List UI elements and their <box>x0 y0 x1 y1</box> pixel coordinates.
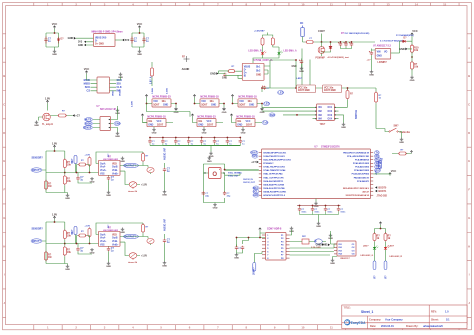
wire <box>93 119 114 121</box>
svg-text:11: 11 <box>330 2 333 6</box>
wire <box>151 62 153 86</box>
power flag VCC <box>145 95 148 98</box>
port +C? <box>73 114 81 117</box>
wire <box>333 257 338 259</box>
junction <box>236 237 238 239</box>
svg-text:3V3: 3V3 <box>78 42 83 44</box>
junction <box>54 32 56 34</box>
svg-text:VDDA: VDDA <box>119 89 122 96</box>
svg-text:1u: 1u <box>167 241 170 244</box>
svg-text:OU1: OU1 <box>328 107 333 109</box>
svg-text:RxD: RxD <box>270 114 275 117</box>
capacitor C2 <box>130 37 137 44</box>
svg-text:VCC: VCC <box>412 29 418 33</box>
wire <box>91 86 117 88</box>
ground <box>330 259 335 266</box>
svg-text:INPUT?: INPUT? <box>32 240 41 243</box>
resistor R <box>261 37 264 46</box>
resistor R <box>151 67 154 77</box>
wire <box>42 241 65 244</box>
wire <box>47 103 49 110</box>
wire <box>120 242 140 255</box>
junction <box>296 114 298 116</box>
ground <box>152 128 157 135</box>
IC NCP/LP2985-33 <box>197 115 216 126</box>
wire <box>42 170 65 173</box>
svg-text:GND: GND <box>163 105 168 107</box>
blue oval component <box>315 239 323 244</box>
junction <box>194 103 196 105</box>
ground <box>115 132 120 139</box>
capacitor C <box>174 139 177 143</box>
wire <box>331 231 338 248</box>
wire <box>46 240 68 265</box>
net label SHDN <box>84 122 92 126</box>
port +C? <box>251 161 259 164</box>
svg-text:100n: 100n <box>327 212 333 214</box>
svg-text:GND: GND <box>65 198 70 200</box>
svg-text:VDD: VDD <box>112 163 117 165</box>
capacitor C <box>324 207 327 211</box>
svg-text:VBUS 5V0: VBUS 5V0 <box>95 38 107 40</box>
svg-text:CON?: CON? <box>318 30 325 33</box>
IC U? <box>100 117 111 131</box>
svg-text:+1.8V: +1.8V <box>141 255 147 257</box>
svg-text:C: C <box>468 103 470 107</box>
svg-text:GND: GND <box>369 75 374 77</box>
IC NCP/LP2985-18 <box>236 115 255 126</box>
svg-text:14: 14 <box>415 2 419 6</box>
svg-text:1u: 1u <box>167 170 170 173</box>
svg-text:OU4: OU4 <box>328 118 333 121</box>
svg-text:MK?: MK? <box>72 229 74 234</box>
wire <box>372 49 376 71</box>
wire <box>96 152 143 164</box>
svg-text:Drawn By:: Drawn By: <box>406 325 419 328</box>
svg-text:NCP/LP2985-33: NCP/LP2985-33 <box>152 96 171 99</box>
junction <box>301 87 303 89</box>
svg-text:VCC: VCC <box>239 101 244 103</box>
port GND <box>322 244 330 247</box>
svg-text:LED: LED <box>265 103 270 106</box>
wire <box>46 148 65 192</box>
microphone sensor <box>74 227 77 235</box>
net flag AGND <box>182 56 190 71</box>
svg-text:10k: 10k <box>67 251 72 254</box>
junction <box>380 228 382 230</box>
capacitor ['C?', '1u'] <box>107 176 115 181</box>
IC U? <box>317 104 335 121</box>
LED <box>373 246 378 250</box>
wire <box>411 69 413 76</box>
ground <box>162 190 167 197</box>
svg-text:XTAL_IN/8MHz: XTAL_IN/8MHz <box>228 172 242 175</box>
svg-text:13: 13 <box>386 2 390 6</box>
svg-text:SENSOR?: SENSOR? <box>32 158 44 160</box>
svg-text:GND: GND <box>65 269 70 271</box>
svg-text:GND: GND <box>211 105 216 107</box>
svg-text:B: B <box>3 74 5 78</box>
svg-text:10n: 10n <box>198 121 203 123</box>
svg-text:STM32F103C8T6: STM32F103C8T6 <box>321 147 340 149</box>
wire <box>375 103 377 128</box>
junction <box>175 103 177 105</box>
power flag VCC <box>137 22 143 29</box>
output net label <box>124 234 139 238</box>
svg-text:VO: VO <box>384 52 388 54</box>
svg-text:+1.8V: +1.8V <box>85 155 91 157</box>
svg-text:CON? HDR-8: CON? HDR-8 <box>267 229 282 231</box>
svg-text:AGND: AGND <box>182 67 190 71</box>
wire <box>313 106 339 108</box>
wire <box>296 49 310 89</box>
resistor ['R?', '10k'] <box>411 61 419 70</box>
junction <box>224 169 226 171</box>
svg-text:1.8VA: 1.8VA <box>151 88 154 94</box>
svg-text:+C5/USB?: +C5/USB? <box>254 31 265 33</box>
svg-text:5IO2.PPD1V-5IOA2.5A.V2: 5IO2.PPD1V-5IOA2.5A.V2 <box>346 194 370 197</box>
svg-text:VinB-: VinB- <box>112 170 118 172</box>
svg-text:TPA?: TPA? <box>320 123 326 126</box>
wire <box>65 236 99 244</box>
LED <box>277 51 282 55</box>
svg-text:TxD: TxD <box>263 121 268 124</box>
wire <box>321 42 323 56</box>
capacitor C <box>161 139 164 143</box>
junction <box>411 56 413 58</box>
svg-text:OutB: OutB <box>112 166 118 169</box>
svg-text:trimm-2k: trimm-2k <box>128 190 138 193</box>
svg-text:10k: 10k <box>414 49 419 52</box>
svg-text:1OUT: 1OUT <box>201 105 208 107</box>
svg-text:E: E <box>3 159 5 163</box>
power flag VCC <box>52 22 58 29</box>
svg-text:GND: GND <box>299 71 304 73</box>
svg-text:VCC: VCC <box>157 121 162 123</box>
svg-text:PCA.MRGB7-B: PCA.MRGB7-B <box>355 159 370 162</box>
svg-text:10n: 10n <box>237 121 242 123</box>
net label LED <box>253 193 259 197</box>
wire <box>120 171 140 184</box>
svg-text:15OA.SLK MD7/PPC1: 15OA.SLK MD7/PPC1 <box>263 180 284 183</box>
svg-text:VDD: VDD <box>112 234 117 236</box>
junction <box>261 87 263 89</box>
wire <box>132 29 144 50</box>
resistor R <box>398 152 407 155</box>
svg-text:JTAG-DIS: JTAG-DIS <box>377 194 388 197</box>
junction <box>299 205 301 207</box>
net label SDA <box>253 186 259 190</box>
transistor Q2 <box>42 113 53 126</box>
ground <box>260 107 265 114</box>
ground <box>207 156 212 163</box>
resistor ['R?', '1k'] <box>384 232 391 241</box>
svg-text:A: A <box>3 46 5 50</box>
output net label <box>124 163 139 167</box>
svg-text:SENSOR?: SENSOR? <box>32 229 44 231</box>
junction <box>309 87 311 89</box>
svg-text:5V0: 5V0 <box>125 39 130 42</box>
svg-text:GND: GND <box>237 124 242 126</box>
svg-text:1/1: 1/1 <box>446 319 450 322</box>
wire <box>108 175 110 190</box>
svg-text:D+ GND: D+ GND <box>95 44 104 46</box>
svg-text:100n: 100n <box>301 212 307 214</box>
svg-text:XTAL_OUT PPC1Y-P6: XTAL_OUT PPC1Y-P6 <box>263 176 284 179</box>
svg-text:TL_amp H: TL_amp H <box>42 124 53 126</box>
svg-text:ADC2?: ADC2? <box>362 190 369 193</box>
svg-text:XTAL_OUT: XTAL_OUT <box>228 175 239 178</box>
svg-text:SDO: SDO <box>117 79 122 82</box>
net label SWC <box>375 165 382 169</box>
svg-text:INPUT?: INPUT? <box>32 169 41 172</box>
wire <box>210 146 212 152</box>
svg-text:10n: 10n <box>162 101 167 103</box>
power flag VCC <box>141 114 144 117</box>
cap bank2 rail <box>297 205 341 207</box>
resistor R <box>271 37 274 46</box>
wire <box>262 107 313 115</box>
resistor ['R?', '10k'] <box>63 158 71 168</box>
ground <box>299 67 304 74</box>
svg-text:A: A <box>468 46 470 50</box>
filter block 2 <box>323 85 342 93</box>
svg-text:PCM.ADL?: PCM.ADL? <box>263 162 274 165</box>
svg-text:VCC: VCC <box>207 121 212 123</box>
svg-text:GND: GND <box>198 124 203 126</box>
capacitor C <box>202 191 205 195</box>
ground <box>115 109 120 116</box>
svg-text:LED?: LED? <box>363 246 369 248</box>
IC U? <box>337 241 356 256</box>
wire <box>46 219 65 263</box>
capacitor C <box>200 139 203 143</box>
IC NCP/LP2985-18 <box>147 115 166 126</box>
junction <box>261 103 263 105</box>
svg-text:+1.8V: +1.8V <box>85 226 91 228</box>
svg-text:GND: GND <box>399 48 405 51</box>
wire <box>391 52 400 54</box>
svg-text:TITLE:: TITLE: <box>344 308 351 310</box>
wire <box>46 29 59 50</box>
svg-text:GND: GND <box>202 133 207 135</box>
net label SWD <box>375 161 382 165</box>
resistor blue G <box>373 261 376 270</box>
svg-text:SW?: SW? <box>394 125 400 127</box>
resistor R <box>88 227 91 237</box>
wire <box>143 117 174 123</box>
ground <box>65 194 70 201</box>
svg-text:GND: GND <box>316 244 322 247</box>
capacitor C4 <box>222 73 227 80</box>
svg-text:PCA.ADC/5IO2: PCA.ADC/5IO2 <box>355 166 370 169</box>
svg-text:2013-04-01: 2013-04-01 <box>381 325 394 328</box>
junction <box>248 237 250 239</box>
wire <box>253 55 279 64</box>
svg-text:NCP/LP2985-18: NCP/LP2985-18 <box>236 115 255 118</box>
svg-text:100n: 100n <box>314 212 320 214</box>
wire <box>232 117 263 123</box>
capacitor C <box>223 191 226 195</box>
svg-text:GND: GND <box>399 142 404 144</box>
capacitor C <box>343 42 347 46</box>
svg-text:OutA: OutA <box>100 233 106 236</box>
wire <box>114 128 118 132</box>
wire <box>339 115 344 123</box>
ground <box>65 265 70 272</box>
svg-text:GND: GND <box>115 136 120 138</box>
resistor R <box>78 163 87 166</box>
IC U? <box>242 63 264 80</box>
svg-text:MOSI: MOSI <box>84 79 91 82</box>
wire <box>264 66 270 74</box>
junction <box>351 41 353 43</box>
svg-text:MUTE: MUTE <box>84 118 91 121</box>
wire <box>225 75 242 78</box>
junction <box>259 237 261 239</box>
net label MUTE <box>84 118 92 122</box>
wire <box>376 129 402 138</box>
svg-text:VinB-: VinB- <box>112 241 118 243</box>
IC U? <box>94 34 116 47</box>
junction <box>76 172 78 174</box>
svg-text:OutA: OutA <box>100 162 106 165</box>
ground <box>137 50 142 57</box>
net label RxD <box>269 113 275 117</box>
resistor ['R?', '1M'] <box>45 251 52 261</box>
wire <box>373 174 390 176</box>
svg-text:LED?: LED? <box>297 78 303 80</box>
svg-text:VCC: VCC <box>201 101 206 103</box>
svg-text:1u: 1u <box>80 250 83 253</box>
svg-text:GND: GND <box>256 75 261 77</box>
svg-text:HOSC6.PLJ5Y/PPC11-2: HOSC6.PLJ5Y/PPC11-2 <box>263 195 286 197</box>
svg-text:NCP/LP2985-33: NCP/LP2985-33 <box>197 115 216 118</box>
svg-text:GND: GND <box>52 54 57 56</box>
svg-text:OUTPUT?: OUTPUT? <box>125 235 137 238</box>
capacitor C1 <box>44 37 51 44</box>
svg-text:5V1 1N4747A(DO/5V6 WE): 5V1 1N4747A(DO/5V6 WE) <box>345 32 370 35</box>
port 5V0 <box>122 39 130 42</box>
wire <box>313 118 339 120</box>
svg-text:LED-0603_R: LED-0603_R <box>390 256 403 258</box>
svg-text:VCC: VCC <box>246 121 251 123</box>
trimmer <box>147 238 154 243</box>
wire <box>375 225 386 234</box>
IC U? <box>97 77 110 93</box>
svg-text:F: F <box>3 188 5 192</box>
svg-text:15: 15 <box>443 2 447 6</box>
svg-text:ID: ID <box>244 76 247 78</box>
svg-text:U?: U? <box>314 146 318 149</box>
svg-text:1OUT: 1OUT <box>207 124 214 126</box>
capacitor C <box>239 139 242 143</box>
svg-text:AUDIO_IN?: AUDIO_IN? <box>164 147 167 160</box>
svg-text:1.8V: 1.8V <box>52 213 58 217</box>
svg-text:VCC: VCC <box>52 22 58 26</box>
svg-text:PCA2.ADC/4.PSD2: PCA2.ADC/4.PSD2 <box>352 173 370 176</box>
wire <box>76 37 94 39</box>
svg-text:+1.8V: +1.8V <box>141 184 147 186</box>
wire <box>408 49 413 62</box>
svg-text:PCA2.ADC/5IO2: PCA2.ADC/5IO2 <box>354 169 370 172</box>
svg-text:BOOT1: BOOT1 <box>379 191 387 193</box>
svg-text:1OUT: 1OUT <box>157 124 164 126</box>
svg-text:17SAL.TSL/PPC1/1.8V1: 17SAL.TSL/PPC1/1.8V1 <box>263 166 286 169</box>
wire <box>290 230 292 235</box>
svg-text:G: G <box>3 216 5 220</box>
wire <box>315 199 317 202</box>
svg-text:GND: GND <box>115 122 121 125</box>
resistor R <box>346 89 349 99</box>
IC NCP/LP2985-18 <box>200 96 219 107</box>
port GND <box>316 243 324 246</box>
power flag VCC <box>410 151 413 154</box>
svg-text:1u: 1u <box>80 179 83 182</box>
svg-text:Company:: Company: <box>369 319 381 322</box>
svg-text:D-: D- <box>95 41 98 43</box>
wire <box>120 233 148 236</box>
ground <box>120 228 125 235</box>
svg-text:XTAL_IN PPC0Y-PA5: XTAL_IN PPC0Y-PA5 <box>263 173 283 176</box>
capacitor C <box>226 139 229 143</box>
diode D3 <box>401 38 407 43</box>
wire <box>87 74 121 80</box>
capacitor ['C?', '1u'] <box>163 239 171 244</box>
ground <box>341 123 346 130</box>
svg-text:REV:: REV: <box>431 311 437 314</box>
ground <box>209 152 214 159</box>
svg-text:10k: 10k <box>414 66 419 69</box>
capacitor C <box>148 139 151 143</box>
junction <box>321 41 323 43</box>
junction <box>162 137 164 139</box>
net label SCL <box>253 190 259 194</box>
LED <box>384 246 389 250</box>
ground <box>34 121 39 128</box>
wire <box>237 231 266 247</box>
svg-text:VBUS: VBUS <box>244 67 251 69</box>
ferrite bead component <box>302 239 309 244</box>
resistor R <box>227 70 235 73</box>
svg-text:VinA-: VinA- <box>100 237 106 240</box>
title block <box>342 305 467 329</box>
svg-text:GND: GND <box>90 253 95 255</box>
capacitor C <box>337 207 340 211</box>
svg-text:1.8V: 1.8V <box>52 142 58 146</box>
svg-text:LED-SMA_R: LED-SMA_R <box>248 49 262 52</box>
svg-text:10k: 10k <box>67 180 72 183</box>
svg-text:REG1117: REG1117 <box>341 258 351 260</box>
wire <box>242 127 244 128</box>
svg-text:100n: 100n <box>340 212 346 214</box>
svg-text:C: C <box>3 103 5 107</box>
wire <box>254 251 262 262</box>
net label TX <box>375 151 380 155</box>
net label VBAT <box>250 151 258 155</box>
ground <box>289 227 294 234</box>
svg-text:Date:: Date: <box>370 325 376 328</box>
capacitor C <box>338 42 342 46</box>
power flag VCC <box>231 95 234 98</box>
net label LED <box>278 91 284 95</box>
capacitor ['C?', '1u'] <box>107 247 115 252</box>
svg-text:MINI-USB-F-SMD_5P-4.8mm: MINI-USB-F-SMD_5P-4.8mm <box>92 30 123 33</box>
resistor R <box>57 114 67 117</box>
svg-text:15DA.SDA PPC11-PA8: 15DA.SDA PPC11-PA8 <box>263 183 285 186</box>
svg-text:GND: GND <box>120 232 125 234</box>
junction <box>330 41 332 43</box>
